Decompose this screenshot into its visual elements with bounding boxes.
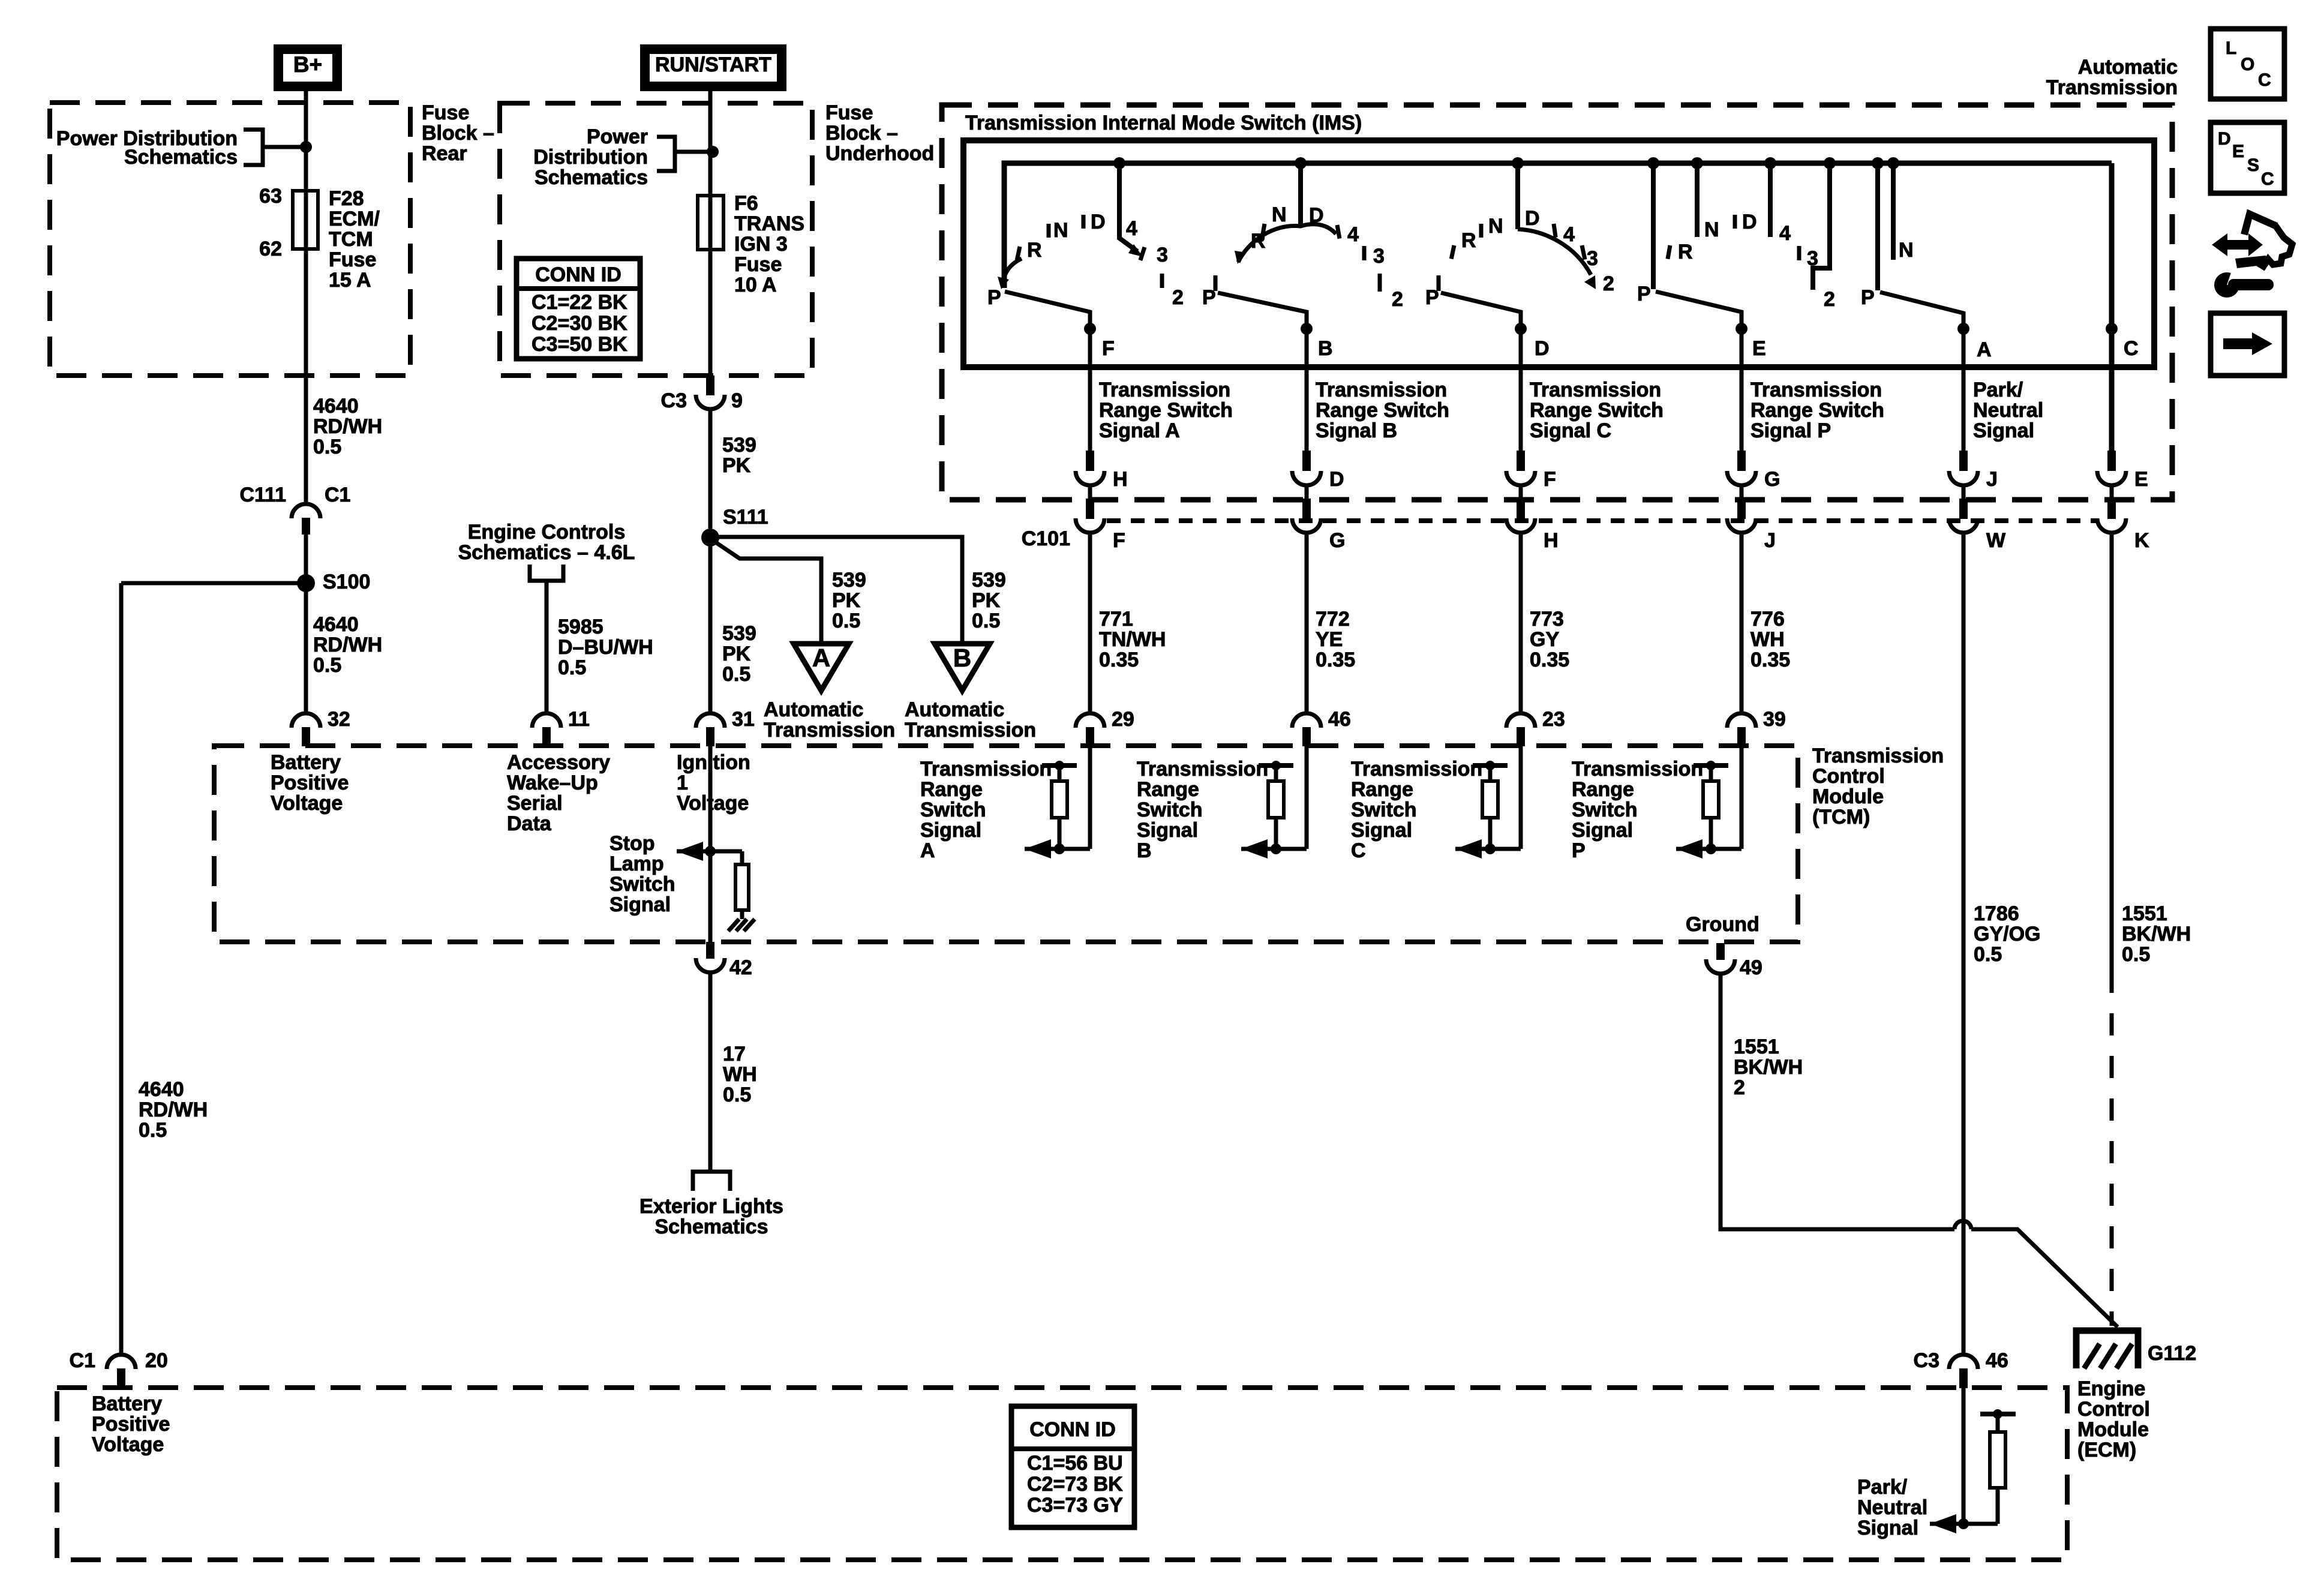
svg-text:Schematics: Schematics (124, 146, 238, 169)
svg-text:Signal: Signal (920, 819, 981, 842)
svg-text:10 A: 10 A (734, 274, 777, 296)
IMS switch 3 P contact tick (1437, 275, 1441, 291)
svg-text:Transmission Internal Mode Swi: Transmission Internal Mode Switch (IMS) (965, 112, 1362, 134)
svg-text:TN/WH: TN/WH (1099, 628, 1166, 651)
svg-text:0.35: 0.35 (1316, 649, 1355, 671)
svg-text:Switch: Switch (920, 798, 986, 821)
svg-text:Lamp: Lamp (609, 852, 664, 875)
svg-text:D: D (1742, 211, 1757, 233)
svg-text:Signal: Signal (1351, 819, 1412, 842)
IMS connector pin J (1959, 451, 1968, 471)
engine control module dashed box (57, 1388, 2067, 1560)
svg-text:4: 4 (1347, 223, 1359, 246)
TCM connector pin 29 (1076, 713, 1104, 728)
svg-text:Switch: Switch (609, 873, 675, 896)
svg-text:4: 4 (1126, 217, 1137, 240)
IMS switch 3 contact ticks (1451, 245, 1454, 259)
svg-text:C: C (2261, 169, 2274, 189)
IMS switch 4 contact line 4 (1768, 163, 1773, 237)
wire ground diagonal to G112 (1971, 1229, 2118, 1327)
wire D out of IMS (1519, 329, 1523, 451)
svg-text:0.35: 0.35 (1750, 649, 1790, 671)
IMS switch 3 common drop and arc to 2 (1515, 163, 1520, 229)
svg-text:Fuse: Fuse (825, 101, 873, 124)
wire RUN/START to fuse F6 (708, 86, 713, 197)
wire S100 to TCM pin 32 (304, 583, 308, 713)
svg-text:4: 4 (1563, 223, 1575, 246)
svg-text:P: P (1202, 286, 1216, 309)
IMS common bus wire (1004, 163, 2112, 288)
svg-text:CONN ID: CONN ID (1029, 1418, 1116, 1441)
wire 539 PK below C3-9 (708, 409, 713, 529)
svg-text:Power: Power (587, 125, 648, 148)
wire 773 GY (1519, 533, 1523, 713)
svg-text:3: 3 (1587, 247, 1598, 270)
svg-text:3: 3 (1807, 247, 1818, 270)
node on wire C (2106, 323, 2118, 335)
connector C101 pin H (1517, 499, 1525, 519)
bracket Power Distribution Schematics (mid) (657, 137, 675, 171)
svg-text:D: D (1329, 468, 1344, 491)
svg-text:TCM: TCM (329, 228, 373, 251)
svg-text:Switch: Switch (1351, 798, 1417, 821)
svg-text:D: D (1091, 211, 1106, 233)
svg-text:0.5: 0.5 (558, 656, 586, 679)
svg-text:Signal B: Signal B (1316, 419, 1397, 442)
svg-text:Range Switch: Range Switch (1316, 399, 1449, 422)
IMS switch 4 wiper to output E (1656, 292, 1742, 334)
svg-text:Switch: Switch (1137, 798, 1203, 821)
svg-text:IGN 3: IGN 3 (734, 233, 788, 256)
IMS switch 1 wiper to output F (1005, 292, 1090, 334)
IMS switch 2 contact arc R to 4 (1238, 224, 1336, 262)
svg-text:C2=30 BK: C2=30 BK (532, 312, 627, 335)
svg-text:S111: S111 (723, 506, 768, 529)
svg-text:Transmission: Transmission (2046, 76, 2178, 99)
svg-text:0.5: 0.5 (972, 610, 1000, 632)
IMS switch 3 wiper to output D (1441, 293, 1521, 334)
IMS switch 5 bus nodes (1872, 157, 1884, 169)
svg-text:Signal C: Signal C (1530, 419, 1611, 442)
svg-text:2: 2 (1603, 272, 1614, 295)
svg-text:42: 42 (729, 956, 752, 979)
svg-text:Module: Module (1812, 785, 1884, 808)
svg-text:E: E (1752, 337, 1766, 360)
svg-text:4: 4 (1779, 222, 1791, 245)
IMS switch 5 common drop to P (1875, 163, 1880, 290)
svg-text:C1: C1 (70, 1349, 95, 1372)
connector C101 pin F (1086, 499, 1094, 519)
svg-text:Range: Range (1137, 778, 1199, 801)
svg-text:0.5: 0.5 (2122, 943, 2150, 966)
svg-text:C1=56 BU: C1=56 BU (1027, 1452, 1123, 1475)
IMS switch 2 common drop (1298, 163, 1303, 227)
svg-text:RUN/START: RUN/START (655, 53, 771, 76)
park neutral signal arrow (1930, 1522, 1998, 1526)
svg-text:C2=73 BK: C2=73 BK (1027, 1473, 1123, 1496)
IMS switch 5 N contact line (1891, 163, 1896, 260)
svg-text:1786: 1786 (1974, 902, 2019, 925)
svg-text:C1=22 BK: C1=22 BK (532, 291, 627, 314)
IMS switch 4 common drop to P (1651, 163, 1656, 289)
svg-text:P: P (1637, 283, 1651, 305)
svg-text:4640: 4640 (313, 395, 359, 418)
svg-text:3: 3 (1373, 245, 1385, 268)
IMS switch 4 bus nodes (1647, 157, 1659, 169)
connector C111 C1 (304, 376, 308, 503)
svg-text:GY: GY (1530, 628, 1559, 651)
svg-text:Positive: Positive (92, 1413, 170, 1436)
svg-text:BK/WH: BK/WH (1734, 1056, 1803, 1079)
svg-text:Range Switch: Range Switch (1099, 399, 1233, 422)
IMS switch 1 contact ticks (1017, 247, 1020, 260)
svg-text:3: 3 (1157, 244, 1168, 266)
svg-text:Transmission: Transmission (1316, 379, 1447, 401)
svg-text:772: 772 (1316, 608, 1350, 631)
svg-text:1551: 1551 (1734, 1035, 1779, 1058)
svg-text:771: 771 (1099, 608, 1133, 631)
svg-text:539: 539 (722, 622, 756, 645)
svg-text:Ground: Ground (1686, 913, 1759, 936)
svg-text:E: E (2232, 142, 2244, 161)
IMS connector pin E (2107, 451, 2116, 471)
node junction on RUN/START feed (707, 146, 719, 158)
svg-text:F: F (1102, 337, 1115, 360)
TCM connector pin 32 (292, 713, 320, 728)
svg-text:BK/WH: BK/WH (2122, 923, 2191, 945)
wire branch to Power Distribution bracket (mid) (677, 150, 710, 154)
svg-text:Distribution: Distribution (533, 146, 648, 169)
svg-text:539: 539 (832, 569, 866, 592)
svg-text:F: F (1544, 468, 1556, 491)
IMS connector pin F (1517, 451, 1525, 471)
svg-text:B: B (953, 644, 971, 672)
svg-text:C: C (2124, 337, 2139, 360)
wire TCM ground 1551 BK/WH 2 (1721, 974, 1954, 1229)
svg-text:PK: PK (972, 589, 1001, 612)
svg-text:4640: 4640 (139, 1078, 184, 1101)
automatic transmission dashed box (942, 105, 2172, 500)
svg-text:D: D (1525, 207, 1540, 230)
wire hop over W wire (1954, 1221, 1971, 1229)
svg-text:539: 539 (722, 434, 756, 457)
power terminal B+ (278, 49, 337, 86)
svg-text:G112: G112 (2148, 1342, 2196, 1365)
TCM range switch signal A input network (1088, 746, 1092, 849)
IMS switch 4 contact line 2 with jog (1813, 163, 1830, 290)
svg-text:PK: PK (722, 454, 751, 477)
svg-text:P: P (1861, 286, 1875, 309)
TCM connector pin 23 (1506, 713, 1535, 728)
svg-text:0.35: 0.35 (1099, 649, 1139, 671)
wire F out of IMS (1088, 329, 1092, 451)
fuse block underhood dashed box (500, 103, 812, 376)
svg-text:Voltage: Voltage (677, 792, 749, 815)
TCM connector pin 39 (1727, 713, 1756, 728)
svg-text:WH: WH (1750, 628, 1785, 651)
svg-text:539: 539 (972, 569, 1006, 592)
svg-text:Fuse: Fuse (329, 248, 376, 271)
off-page triangle A (794, 644, 849, 691)
fuse F6 TRANS IGN 3 10A (708, 197, 713, 376)
IMS switch 1 common drop to 3 (1119, 163, 1137, 251)
svg-text:1551: 1551 (2122, 902, 2167, 925)
wire branch to triangle B (710, 537, 962, 644)
svg-text:39: 39 (1763, 708, 1786, 731)
svg-text:63: 63 (259, 185, 282, 208)
connector C101 dashed line (1107, 518, 2097, 523)
svg-text:Block –: Block – (825, 122, 898, 145)
IMS connector pin H (1086, 451, 1094, 471)
svg-text:F: F (1113, 529, 1125, 552)
svg-text:Transmission: Transmission (764, 719, 895, 742)
connector C101 pin K (2107, 499, 2116, 519)
IMS switch 2 P contact tick (1214, 275, 1218, 291)
svg-text:C3: C3 (1914, 1349, 1939, 1372)
svg-text:Fuse: Fuse (734, 253, 782, 276)
wire left branch down to ECM C1-20 (119, 583, 124, 1354)
svg-text:R: R (1027, 239, 1042, 262)
wire branch to triangle A (714, 541, 821, 644)
svg-text:46: 46 (1328, 708, 1351, 731)
svg-text:GY/OG: GY/OG (1974, 923, 2040, 945)
svg-text:773: 773 (1530, 608, 1564, 631)
svg-text:15 A: 15 A (329, 269, 371, 292)
svg-text:W: W (1986, 529, 2006, 552)
svg-text:D: D (2218, 129, 2231, 149)
svg-text:Transmission: Transmission (1137, 758, 1268, 781)
IMS switch 1 bus node (1113, 157, 1125, 169)
svg-text:RD/WH: RD/WH (313, 415, 382, 438)
svg-text:C: C (2258, 70, 2271, 90)
svg-text:Stop: Stop (609, 832, 655, 855)
TCM connector pin 11 (532, 713, 561, 728)
svg-text:Voltage: Voltage (271, 792, 343, 815)
wire E out of IMS (1740, 329, 1744, 451)
wire A out of IMS (1962, 329, 1966, 451)
svg-text:Battery: Battery (92, 1392, 162, 1415)
svg-text:Range: Range (1351, 778, 1413, 801)
svg-text:S: S (2247, 155, 2259, 175)
svg-text:23: 23 (1542, 708, 1565, 731)
svg-text:0.5: 0.5 (313, 436, 341, 458)
svg-text:C111: C111 (239, 484, 286, 506)
svg-text:WH: WH (723, 1063, 757, 1086)
wire B out of IMS (1305, 329, 1309, 451)
ECM connector C1 pin 20 (107, 1355, 136, 1369)
IMS switch 4 N contact line (1695, 163, 1700, 237)
svg-text:Underhood: Underhood (825, 142, 934, 165)
wire C from bus (2109, 163, 2115, 451)
svg-text:F28: F28 (329, 187, 364, 210)
svg-text:Data: Data (507, 812, 552, 835)
IMS switch 5 wiper to output A (1880, 292, 1963, 334)
svg-text:Module: Module (2077, 1418, 2149, 1441)
svg-text:0.5: 0.5 (722, 663, 750, 686)
node junction on B+ feed (300, 141, 312, 153)
svg-text:J: J (1764, 529, 1776, 552)
bracket Power Distribution Schematics (left) (244, 130, 263, 165)
svg-text:Block –: Block – (422, 122, 494, 145)
svg-text:62: 62 (259, 238, 282, 260)
svg-text:Accessory: Accessory (507, 751, 610, 774)
svg-text:Transmission: Transmission (1099, 379, 1230, 401)
IMS switch 2 wiper to output B (1218, 293, 1307, 334)
connector C3 pin 9 (706, 376, 714, 395)
splice S100 (297, 574, 315, 592)
wire 776 WH (1740, 533, 1744, 713)
TCM connector pin 31 (696, 713, 725, 728)
svg-text:E: E (2134, 468, 2148, 491)
svg-text:0.5: 0.5 (139, 1119, 167, 1142)
TCM connector pin 46 (1292, 713, 1321, 728)
svg-text:Signal: Signal (609, 893, 671, 916)
svg-text:Schematics: Schematics (535, 166, 648, 189)
stop lamp switch signal branch (677, 849, 742, 854)
svg-text:D–BU/WH: D–BU/WH (558, 636, 653, 659)
wire 772 YE (1305, 533, 1309, 713)
svg-text:Exterior Lights: Exterior Lights (639, 1195, 783, 1218)
wire ignition feed inside TCM (708, 746, 713, 942)
svg-text:Neutral: Neutral (1973, 399, 2043, 422)
svg-text:1: 1 (677, 772, 688, 794)
svg-text:P: P (1425, 286, 1439, 309)
power terminal RUN/START (645, 49, 782, 86)
svg-text:C1: C1 (325, 484, 350, 506)
conn id table ECM (1011, 1406, 1134, 1527)
svg-text:4640: 4640 (313, 613, 359, 636)
svg-text:(ECM): (ECM) (2077, 1439, 2136, 1461)
resistor stop lamp pull (740, 851, 744, 864)
svg-text:N: N (1899, 239, 1914, 262)
connector C101 pin W (1959, 499, 1968, 519)
IMS switch 3 bus node (1512, 157, 1524, 169)
wire Engine Controls to TCM pin 11 (545, 581, 549, 713)
wire 771 TN/WH (1088, 533, 1092, 713)
conn id table underhood (517, 259, 640, 359)
svg-text:B: B (1318, 337, 1333, 360)
svg-text:Range Switch: Range Switch (1530, 399, 1664, 422)
svg-text:C3=50 BK: C3=50 BK (532, 333, 627, 356)
svg-text:Transmission: Transmission (920, 758, 1052, 781)
ground G112 (2076, 1331, 2138, 1368)
svg-text:Switch: Switch (1572, 798, 1638, 821)
destination bracket Exterior Lights (693, 1172, 730, 1191)
svg-text:RD/WH: RD/WH (139, 1098, 208, 1121)
svg-text:Positive: Positive (271, 772, 349, 794)
svg-text:D: D (1309, 204, 1324, 227)
svg-text:49: 49 (1740, 956, 1762, 979)
wire B+ to fuse F28 (304, 86, 308, 192)
transmission control module dashed box (214, 746, 1798, 942)
svg-text:C101: C101 (1022, 527, 1070, 550)
svg-text:2: 2 (1734, 1076, 1745, 1099)
svg-text:0.5: 0.5 (832, 610, 860, 632)
svg-text:776: 776 (1750, 608, 1785, 631)
wire pin46 to park/neutral node (1962, 1388, 1966, 1524)
svg-text:C3: C3 (661, 389, 687, 412)
svg-text:Transmission: Transmission (1530, 379, 1661, 401)
svg-text:R: R (1251, 230, 1266, 253)
svg-text:D: D (1535, 337, 1550, 360)
svg-text:PK: PK (722, 643, 751, 665)
svg-text:R: R (1678, 241, 1693, 263)
svg-text:Engine Controls: Engine Controls (468, 521, 626, 544)
svg-text:0.5: 0.5 (723, 1083, 751, 1106)
svg-text:PK: PK (832, 589, 861, 612)
svg-text:YE: YE (1316, 628, 1343, 651)
svg-text:G: G (1329, 529, 1345, 552)
svg-text:Transmission: Transmission (905, 719, 1036, 742)
svg-text:J: J (1986, 468, 1998, 491)
TCM range switch signal C input network (1519, 746, 1523, 849)
svg-text:CONN ID: CONN ID (535, 263, 621, 286)
IMS switch 2 contact ticks (1262, 224, 1265, 238)
ECM connector C3 pin 46 (1949, 1355, 1978, 1369)
svg-text:B: B (1137, 839, 1152, 862)
svg-text:32: 32 (328, 708, 350, 731)
svg-text:Automatic: Automatic (764, 698, 863, 721)
svg-text:Signal: Signal (1857, 1517, 1918, 1539)
svg-text:Ignition: Ignition (677, 751, 750, 774)
svg-text:Automatic: Automatic (2078, 56, 2178, 79)
svg-text:Park/: Park/ (1973, 379, 2023, 401)
svg-text:N: N (1053, 219, 1068, 242)
svg-text:A: A (1977, 338, 1992, 361)
svg-text:Range Switch: Range Switch (1750, 399, 1884, 422)
svg-text:B+: B+ (293, 52, 322, 77)
wire S111 to TCM pin 31 (708, 538, 713, 713)
IMS connector pin D (1302, 451, 1311, 471)
signal ground stop lamp (728, 919, 755, 931)
wire S100 branch left (121, 581, 306, 586)
svg-text:Signal P: Signal P (1750, 419, 1831, 442)
svg-text:Signal: Signal (1137, 819, 1198, 842)
svg-text:Wake–Up: Wake–Up (507, 772, 598, 794)
svg-text:A: A (812, 644, 830, 672)
svg-text:2: 2 (1392, 288, 1403, 311)
svg-text:2: 2 (1824, 288, 1835, 311)
svg-text:N: N (1704, 218, 1719, 241)
svg-text:Voltage: Voltage (92, 1433, 164, 1456)
connector C101 pin J (1737, 499, 1746, 519)
svg-text:P: P (987, 286, 1001, 309)
svg-text:0.5: 0.5 (313, 654, 341, 677)
off-page triangle B (935, 644, 990, 691)
svg-text:K: K (2134, 529, 2149, 552)
svg-text:Range: Range (1572, 778, 1634, 801)
svg-text:R: R (1461, 229, 1476, 252)
wire W 1786 GY/OG to ECM (1962, 533, 1966, 1354)
svg-text:31: 31 (732, 708, 755, 731)
svg-text:5985: 5985 (558, 616, 603, 638)
IMS connector pin G (1737, 451, 1746, 471)
svg-text:Control: Control (1812, 765, 1885, 788)
svg-text:0.5: 0.5 (1974, 943, 2002, 966)
svg-text:Battery: Battery (271, 751, 341, 774)
svg-text:Range: Range (920, 778, 983, 801)
wire K 1551 BK/WH to G112 (2110, 533, 2114, 971)
svg-text:A: A (920, 839, 935, 862)
svg-text:F6: F6 (734, 192, 758, 215)
svg-text:2: 2 (1172, 286, 1184, 309)
icon DESC box (2211, 122, 2284, 193)
svg-text:Serial: Serial (507, 792, 563, 815)
svg-text:ECM/: ECM/ (329, 208, 380, 230)
TCM connector pin 42 (706, 942, 714, 959)
connector C101 pin G (1302, 499, 1311, 519)
icon LOC box (2211, 29, 2284, 99)
